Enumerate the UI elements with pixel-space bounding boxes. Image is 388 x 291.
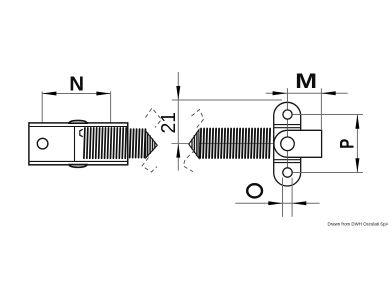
break mark upper (right rod) bbox=[192, 110, 204, 128]
body inner top wall bbox=[30, 126, 127, 128]
screw thread coils inside body bbox=[84, 128, 85, 158]
node: N right arrowhead bbox=[96, 92, 110, 96]
screw thread coils (right rod) bbox=[200, 129, 201, 158]
plate fold line top a bbox=[274, 124, 301, 126]
svg-text:P: P bbox=[337, 139, 359, 149]
screw entry cone (right rod) bbox=[189, 130, 199, 158]
node: O left arrowhead bbox=[268, 201, 282, 205]
wire: M dimension line bbox=[266, 92, 348, 94]
wire: 21 top extension line bbox=[172, 99, 282, 101]
wire: O right extension line bbox=[291, 178, 293, 217]
node: 21 top arrowhead bbox=[176, 86, 180, 100]
body mounting hole bbox=[37, 138, 48, 149]
cone stripe 3 bbox=[152, 138, 154, 151]
barrel block bbox=[274, 130, 322, 157]
body divider bbox=[74, 127, 76, 162]
right cone stripe 2 bbox=[193, 135, 195, 153]
bottom mounting hole bbox=[283, 168, 292, 177]
wire: N dimension line bbox=[42, 93, 110, 95]
body end cap bbox=[127, 123, 129, 165]
wire: O dimension line bbox=[235, 202, 319, 204]
node: label O bbox=[247, 184, 262, 197]
wire: P dimension line bbox=[356, 115, 358, 173]
cone stripe 2 bbox=[149, 135, 151, 154]
right cone stripe 1 bbox=[196, 132, 198, 156]
wire: 21 vertical dimension line bbox=[177, 72, 179, 171]
wire: rod axis centerline bbox=[172, 143, 288, 145]
node: P bottom arrowhead bbox=[355, 158, 359, 172]
svg-text:Drawn from DWH Osculati SpA: Drawn from DWH Osculati SpA bbox=[328, 221, 388, 226]
hinge plate outline bbox=[274, 102, 301, 186]
right cone stripe 3 bbox=[191, 139, 193, 150]
screw pointed tip cone bbox=[146, 131, 158, 158]
pin hole bbox=[281, 137, 295, 151]
wire: P bottom extension line bbox=[293, 172, 363, 174]
cone stripe 1 bbox=[147, 133, 149, 157]
wire: hole centerline vertical bbox=[286, 88, 288, 172]
rolled tube bottom bbox=[69, 165, 87, 168]
body outer shell bbox=[29, 123, 128, 165]
wire: N left extension line bbox=[41, 91, 43, 137]
top mounting hole bbox=[283, 110, 292, 119]
node: O right arrowhead bbox=[292, 201, 306, 205]
node: M left arrowhead bbox=[273, 91, 287, 95]
node: 21 bottom arrowhead bbox=[176, 144, 180, 158]
plate fold line top b bbox=[274, 127, 301, 129]
screw thread coils outside body bbox=[130, 129, 131, 157]
cone stripe 4 bbox=[154, 142, 156, 149]
wire: M right extension line bbox=[320, 88, 322, 130]
thread start hook bbox=[80, 129, 83, 136]
rolled tube top bbox=[69, 121, 87, 124]
break mark lower (left rod) bbox=[142, 158, 157, 173]
wire: N right extension line bbox=[110, 91, 112, 127]
break mark lower (right rod) bbox=[183, 150, 195, 172]
svg-text:M: M bbox=[295, 69, 317, 93]
break mark upper (left rod) bbox=[146, 108, 162, 128]
svg-text:21: 21 bbox=[158, 112, 180, 134]
node: N left arrowhead bbox=[42, 92, 56, 96]
plate fold line bottom a bbox=[274, 159, 301, 161]
body inner bottom wall bbox=[30, 160, 127, 162]
wire: P top extension line bbox=[292, 114, 363, 116]
node: M right arrowhead bbox=[321, 91, 335, 95]
plate fold line bottom b bbox=[274, 162, 301, 164]
svg-text:N: N bbox=[69, 73, 84, 96]
wire: O left extension line bbox=[282, 178, 284, 217]
node: P top arrowhead bbox=[355, 115, 359, 129]
